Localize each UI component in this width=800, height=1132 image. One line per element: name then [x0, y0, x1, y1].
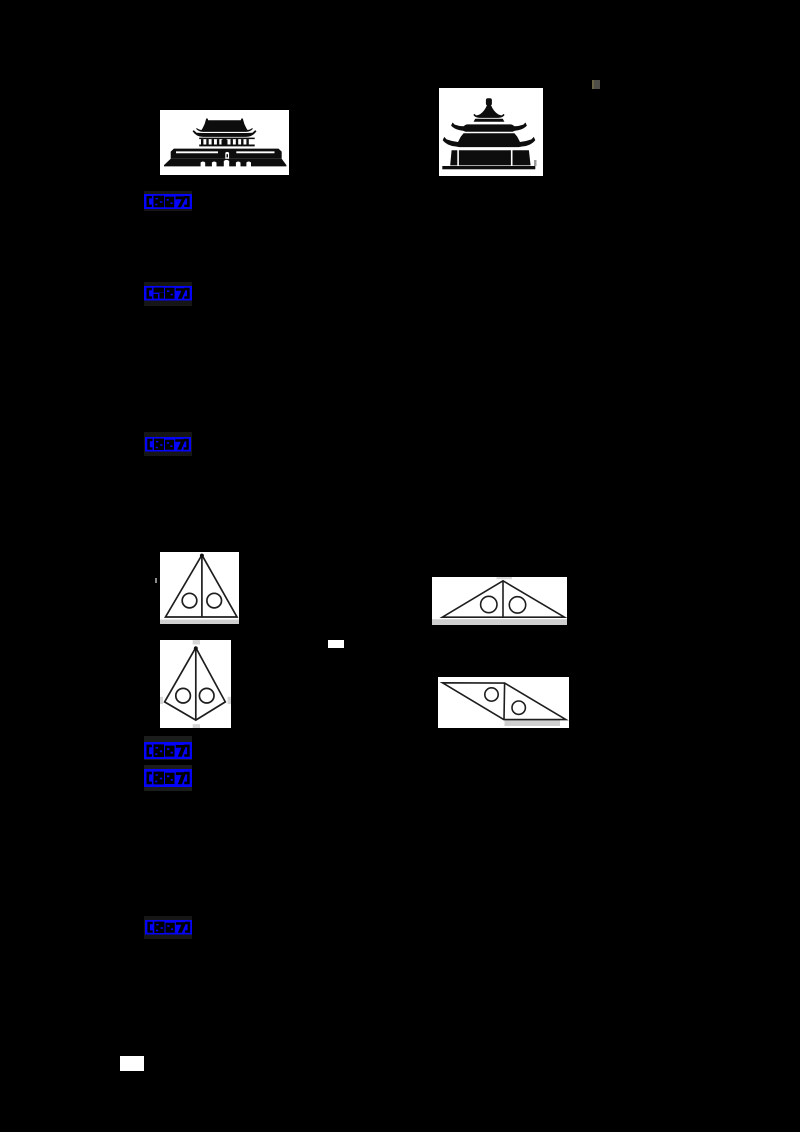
- colonnade top beam: [199, 138, 255, 140]
- middle roof with wing tips: [451, 123, 527, 132]
- lower wall with five gates: [164, 159, 286, 167]
- base bar: [442, 166, 535, 169]
- tier-2 roof: [193, 130, 257, 137]
- small gray sliver left of figure B: [155, 578, 157, 583]
- highlight 【例1】: [144, 191, 193, 211]
- top conical roof: [473, 105, 504, 118]
- image: Tiananmen gate silhouette: [160, 110, 289, 175]
- finial: [486, 98, 492, 105]
- tiny icon top right: [592, 80, 600, 89]
- columns: [201, 139, 203, 144]
- highlight 【巩固】 (2nd): [144, 736, 193, 760]
- colonnade bottom beam: [199, 145, 255, 147]
- image: pavilion (Temple-style) silhouette: [439, 88, 543, 176]
- footer page-number box: [120, 1056, 144, 1071]
- highlight 【巩固】 (3rd): [144, 916, 192, 940]
- body with column gaps: [450, 150, 530, 165]
- figure B: wide flat triangle with median and two circles: [432, 577, 568, 625]
- figure C: kite shape with median, circles and selection handles: [160, 640, 232, 729]
- bottom roof with wing tips: [443, 133, 536, 147]
- figure A: upright triangle with median and two circles: [160, 552, 240, 624]
- highlight 【巩固】: [144, 282, 193, 306]
- main wall upper band with slits and door: [171, 149, 282, 159]
- ridge band: [474, 119, 505, 122]
- white dash between figures: [328, 640, 344, 648]
- highlight 【例2】: [144, 432, 192, 456]
- figure D: parallelogram with diagonal and two circles: [438, 677, 569, 728]
- highlight 【例3】: [144, 765, 193, 791]
- top roof: [196, 119, 253, 132]
